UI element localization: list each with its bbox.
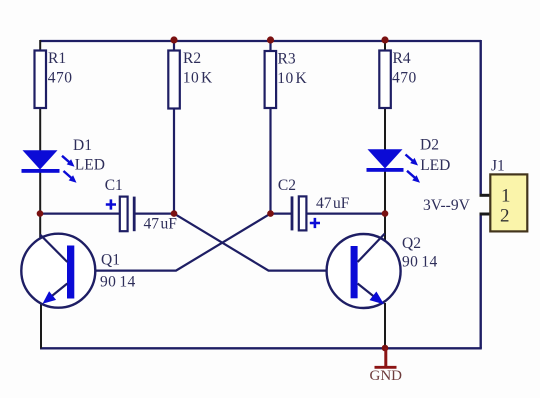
svg-text:1: 1: [501, 186, 511, 207]
resistor R4: [379, 51, 391, 109]
wire C1 right plate to node C: [135, 213, 175, 215]
node D junction dot (top of R3): [267, 36, 274, 43]
wire right vertical lower (J1 pin 2 to bottom rail): [480, 214, 482, 349]
svg-text:GND: GND: [370, 368, 403, 384]
svg-text:C2: C2: [278, 177, 296, 194]
svg-text:2: 2: [500, 206, 510, 227]
wire node A to C1 left plate: [40, 213, 120, 215]
wire R4 to D2: [384, 108, 386, 150]
svg-text:10K: 10K: [183, 70, 213, 87]
resistor R3: [265, 51, 277, 108]
node C junction dot (C1 right): [171, 210, 178, 217]
junction dot GND node: [382, 345, 389, 352]
transistor Q2: [327, 234, 401, 308]
node B junction dot (D2 cathode): [382, 210, 389, 217]
wire R1 top lead: [39, 40, 41, 51]
wire D2 to node B / Q2 collector lead: [384, 171, 386, 242]
LED D1: [22, 150, 77, 183]
svg-text:LED: LED: [75, 157, 105, 174]
svg-text:R3: R3: [278, 51, 296, 68]
svg-text:3V--9V: 3V--9V: [423, 197, 471, 214]
capacitor C2: [292, 196, 320, 230]
svg-text:C1: C1: [105, 177, 123, 194]
wire D1 to node A / Q1 collector lead: [39, 172, 41, 239]
LED D2: [367, 149, 421, 183]
resistor R2: [168, 51, 180, 109]
node C junction dot (top of R2): [170, 36, 177, 43]
svg-text:D1: D1: [73, 137, 92, 154]
wire top rail VCC: [40, 40, 481, 42]
wire R4 top lead: [384, 40, 386, 51]
svg-text:47uF: 47uF: [316, 195, 350, 212]
svg-text:470: 470: [48, 70, 73, 87]
wire node D diagonal to Q1 base: [74, 214, 270, 271]
wire C2 right plate to node B: [306, 213, 385, 215]
wire node D to C2 left plate: [271, 213, 293, 215]
node A junction dot (D1 cathode): [37, 210, 44, 217]
connector J1: [490, 174, 527, 231]
svg-text:R1: R1: [48, 50, 66, 67]
svg-text:10K: 10K: [277, 70, 307, 87]
node junction dot (top of R4): [381, 36, 388, 43]
resistor R1: [35, 51, 47, 109]
transistor Q1: [21, 234, 95, 308]
wire R3 top lead: [269, 40, 271, 51]
svg-text:J1: J1: [491, 158, 505, 175]
svg-text:R2: R2: [183, 50, 201, 67]
wire R1 to D1: [39, 108, 41, 151]
wire right vertical upper (to J1 pin 1): [480, 40, 482, 196]
wire Q2 emitter to bottom rail: [384, 303, 386, 348]
wire Q1 emitter to bottom rail: [40, 303, 42, 348]
wire J1 pin 2 stub: [480, 213, 492, 216]
wire bottom rail: [40, 347, 482, 349]
wire R3 bottom lead to node D: [269, 108, 271, 214]
wire node C diagonal to Q2 base: [174, 214, 351, 271]
node D junction dot (C2 left): [267, 210, 274, 217]
svg-text:Q2: Q2: [402, 235, 421, 252]
svg-text:470: 470: [392, 70, 417, 87]
svg-text:47uF: 47uF: [144, 216, 178, 233]
wire R2 bottom lead to node C: [173, 108, 175, 214]
svg-text:R4: R4: [393, 50, 411, 67]
svg-text:LED: LED: [420, 157, 450, 174]
svg-text:Q1: Q1: [101, 252, 120, 269]
wire J1 pin 1 stub: [480, 194, 492, 197]
capacitor C1: [106, 197, 134, 232]
ground symbol: [375, 348, 397, 367]
wire R2 top lead: [173, 40, 175, 51]
svg-text:D2: D2: [420, 137, 439, 154]
